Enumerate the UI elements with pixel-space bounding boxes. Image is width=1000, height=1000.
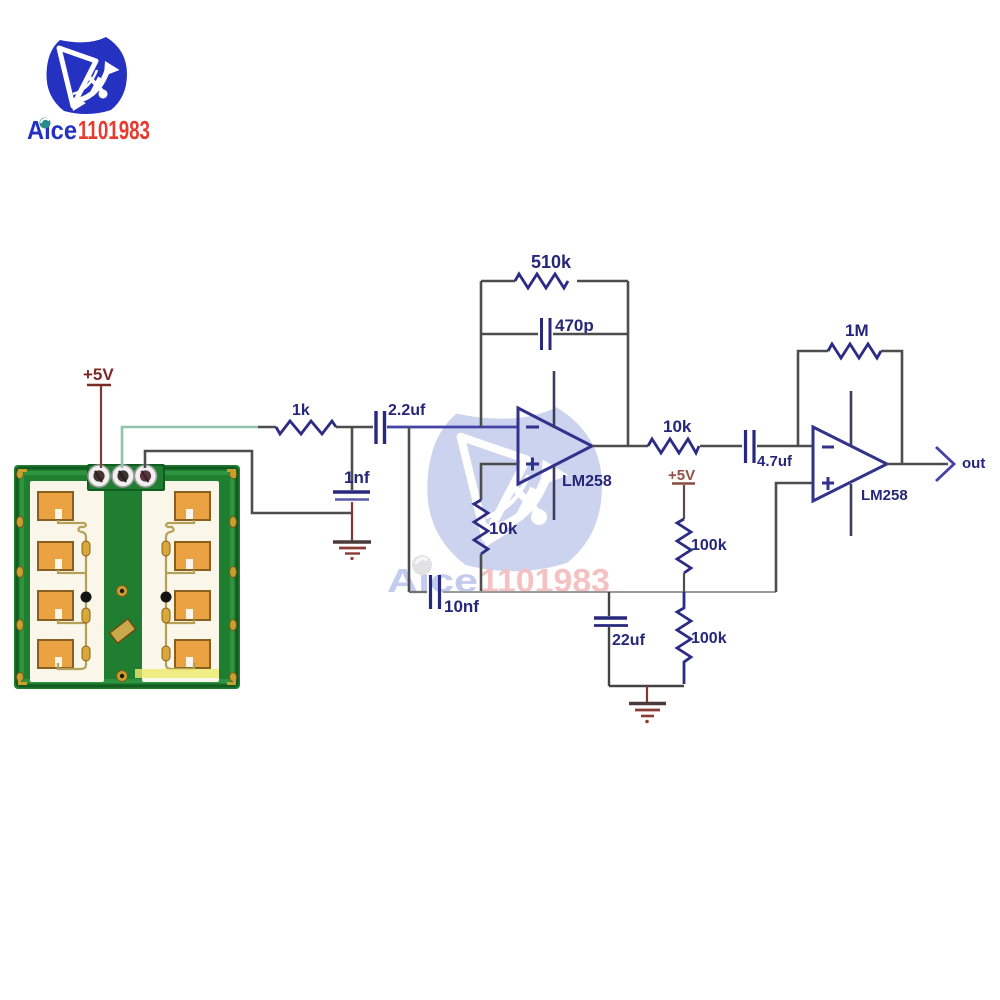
svg-text:510k: 510k <box>531 252 572 272</box>
bottom wire 22uf to 100k <box>609 685 684 687</box>
wire node D down to 22uf <box>608 592 610 616</box>
svg-text:100k: 100k <box>691 630 727 647</box>
resistor R2 510k <box>515 274 568 288</box>
wire 470p branch right <box>553 333 628 336</box>
feedback left vertical (U1 in to top) <box>480 281 483 427</box>
wire +5V to 100k <box>683 485 685 519</box>
node A junction / wire down to 1nf <box>351 427 354 490</box>
svg-text:100k: 100k <box>691 537 727 554</box>
svg-text:22uf: 22uf <box>612 632 646 649</box>
feedback right vertical (top to U1 output) <box>627 281 630 446</box>
screw terminal 3 <box>135 465 157 487</box>
watermark text <box>387 555 610 599</box>
wire 10k to 4.7uf <box>700 445 742 448</box>
right substrate <box>142 481 219 682</box>
feedback 2 left vertical <box>798 351 828 446</box>
svg-text:Aice: Aice <box>387 562 478 599</box>
resistor R3 10k (vertical) <box>474 500 488 554</box>
terminal tab <box>87 464 165 491</box>
ground (below 1nf) <box>333 542 371 560</box>
screw terminal 1 <box>88 465 110 487</box>
antenna patches left <box>38 492 73 668</box>
svg-text:1M: 1M <box>845 321 869 340</box>
wire 4.7uf to op-amp U2 inverting input <box>757 445 813 448</box>
op-amp U1 LM258 <box>518 408 592 484</box>
svg-text:1101983: 1101983 <box>78 115 150 145</box>
antenna patches right <box>175 492 210 668</box>
wire terminal 2 to 1k (teal) <box>122 427 258 468</box>
wire U1 + input to 10k <box>481 464 518 500</box>
svg-text:4.7uf: 4.7uf <box>757 453 793 470</box>
svg-text:+5V: +5V <box>668 467 695 484</box>
corner logo text <box>27 115 150 145</box>
svg-text:1k: 1k <box>292 402 310 419</box>
wire top-left to 510k <box>481 280 515 283</box>
capacitor C4 10nf <box>431 575 440 609</box>
resistor R7 1M <box>828 344 881 358</box>
wire C2 to op-amp U1 inverting input (purple) <box>387 426 518 429</box>
center vias <box>117 586 128 682</box>
node B / wire down to 10nf rail <box>408 427 411 592</box>
watermark shield logo (faint center) <box>427 407 602 571</box>
edge pads left <box>17 470 237 682</box>
feed trace left <box>58 520 86 669</box>
capacitor C1 1nf <box>333 492 370 500</box>
U1 V- pin <box>553 466 556 520</box>
bottom highlight <box>135 669 219 678</box>
wire +5V to terminal 1 <box>100 386 102 468</box>
feedback 2 right vertical <box>881 351 902 464</box>
svg-text:1101983: 1101983 <box>480 562 610 599</box>
svg-text:LM258: LM258 <box>861 487 908 504</box>
U1 V+ pin <box>553 371 556 428</box>
beads left <box>82 541 90 661</box>
svg-text:10k: 10k <box>663 417 692 436</box>
capacitor C3 470p <box>542 318 551 350</box>
wire U1 output <box>592 445 648 448</box>
wire 1nf to ground <box>351 502 353 541</box>
corner marks <box>18 469 236 685</box>
op-amp U2 LM258 <box>813 427 887 501</box>
capacitor C5 4.7uf <box>746 430 755 463</box>
bias rail wire (left part) <box>409 591 427 593</box>
bias rail wire (main) <box>443 591 776 593</box>
feed trace right <box>166 520 194 669</box>
wire 100k to rail node C <box>683 573 685 592</box>
wire 10k down to rail <box>480 554 483 592</box>
wire U2 output <box>887 463 948 466</box>
wire 1k to node A <box>336 426 373 429</box>
U2 V- pin <box>850 484 853 536</box>
wire 510k to right vertical <box>577 280 628 283</box>
svg-text:10nf: 10nf <box>444 597 479 616</box>
wire 470p branch left <box>481 333 538 336</box>
svg-text:+5V: +5V <box>83 365 114 384</box>
screw terminal 2 <box>112 465 134 487</box>
capacitor C2 2.2uf <box>376 411 385 444</box>
resistor R4 10k (horizontal) <box>648 439 699 453</box>
output arrow <box>936 447 954 481</box>
radar sensor PCB module <box>14 464 240 689</box>
beads right <box>162 541 170 661</box>
resistor R6 100k (lower) <box>677 592 691 684</box>
+5V supply symbol (right) <box>668 467 695 484</box>
capacitor C6 22uf <box>594 618 628 626</box>
svg-text:2.2uf: 2.2uf <box>388 402 426 419</box>
svg-text:1nf: 1nf <box>344 468 370 487</box>
corner logo shield <box>46 37 127 114</box>
svg-text:Aice: Aice <box>27 115 77 145</box>
board body <box>14 465 240 689</box>
wire 22uf down <box>608 627 610 686</box>
svg-text:10k: 10k <box>489 519 518 538</box>
resistor R1 1k <box>276 421 336 434</box>
wire terminal 3 to 1nf bottom (gray) <box>145 451 352 513</box>
wire U2 + input to rail <box>776 483 813 592</box>
ground (bottom center) <box>629 704 666 724</box>
patch notches <box>55 509 193 667</box>
svg-text:LM258: LM258 <box>562 473 612 490</box>
tilted component <box>110 619 136 643</box>
wire to ground 2 <box>646 686 648 702</box>
svg-text:470p: 470p <box>555 316 594 335</box>
+5V supply symbol (left) <box>83 365 114 385</box>
svg-text:out: out <box>962 455 985 472</box>
left substrate <box>30 481 104 682</box>
U2 V+ pin <box>850 391 853 446</box>
resistor R5 100k (upper) <box>677 519 691 573</box>
